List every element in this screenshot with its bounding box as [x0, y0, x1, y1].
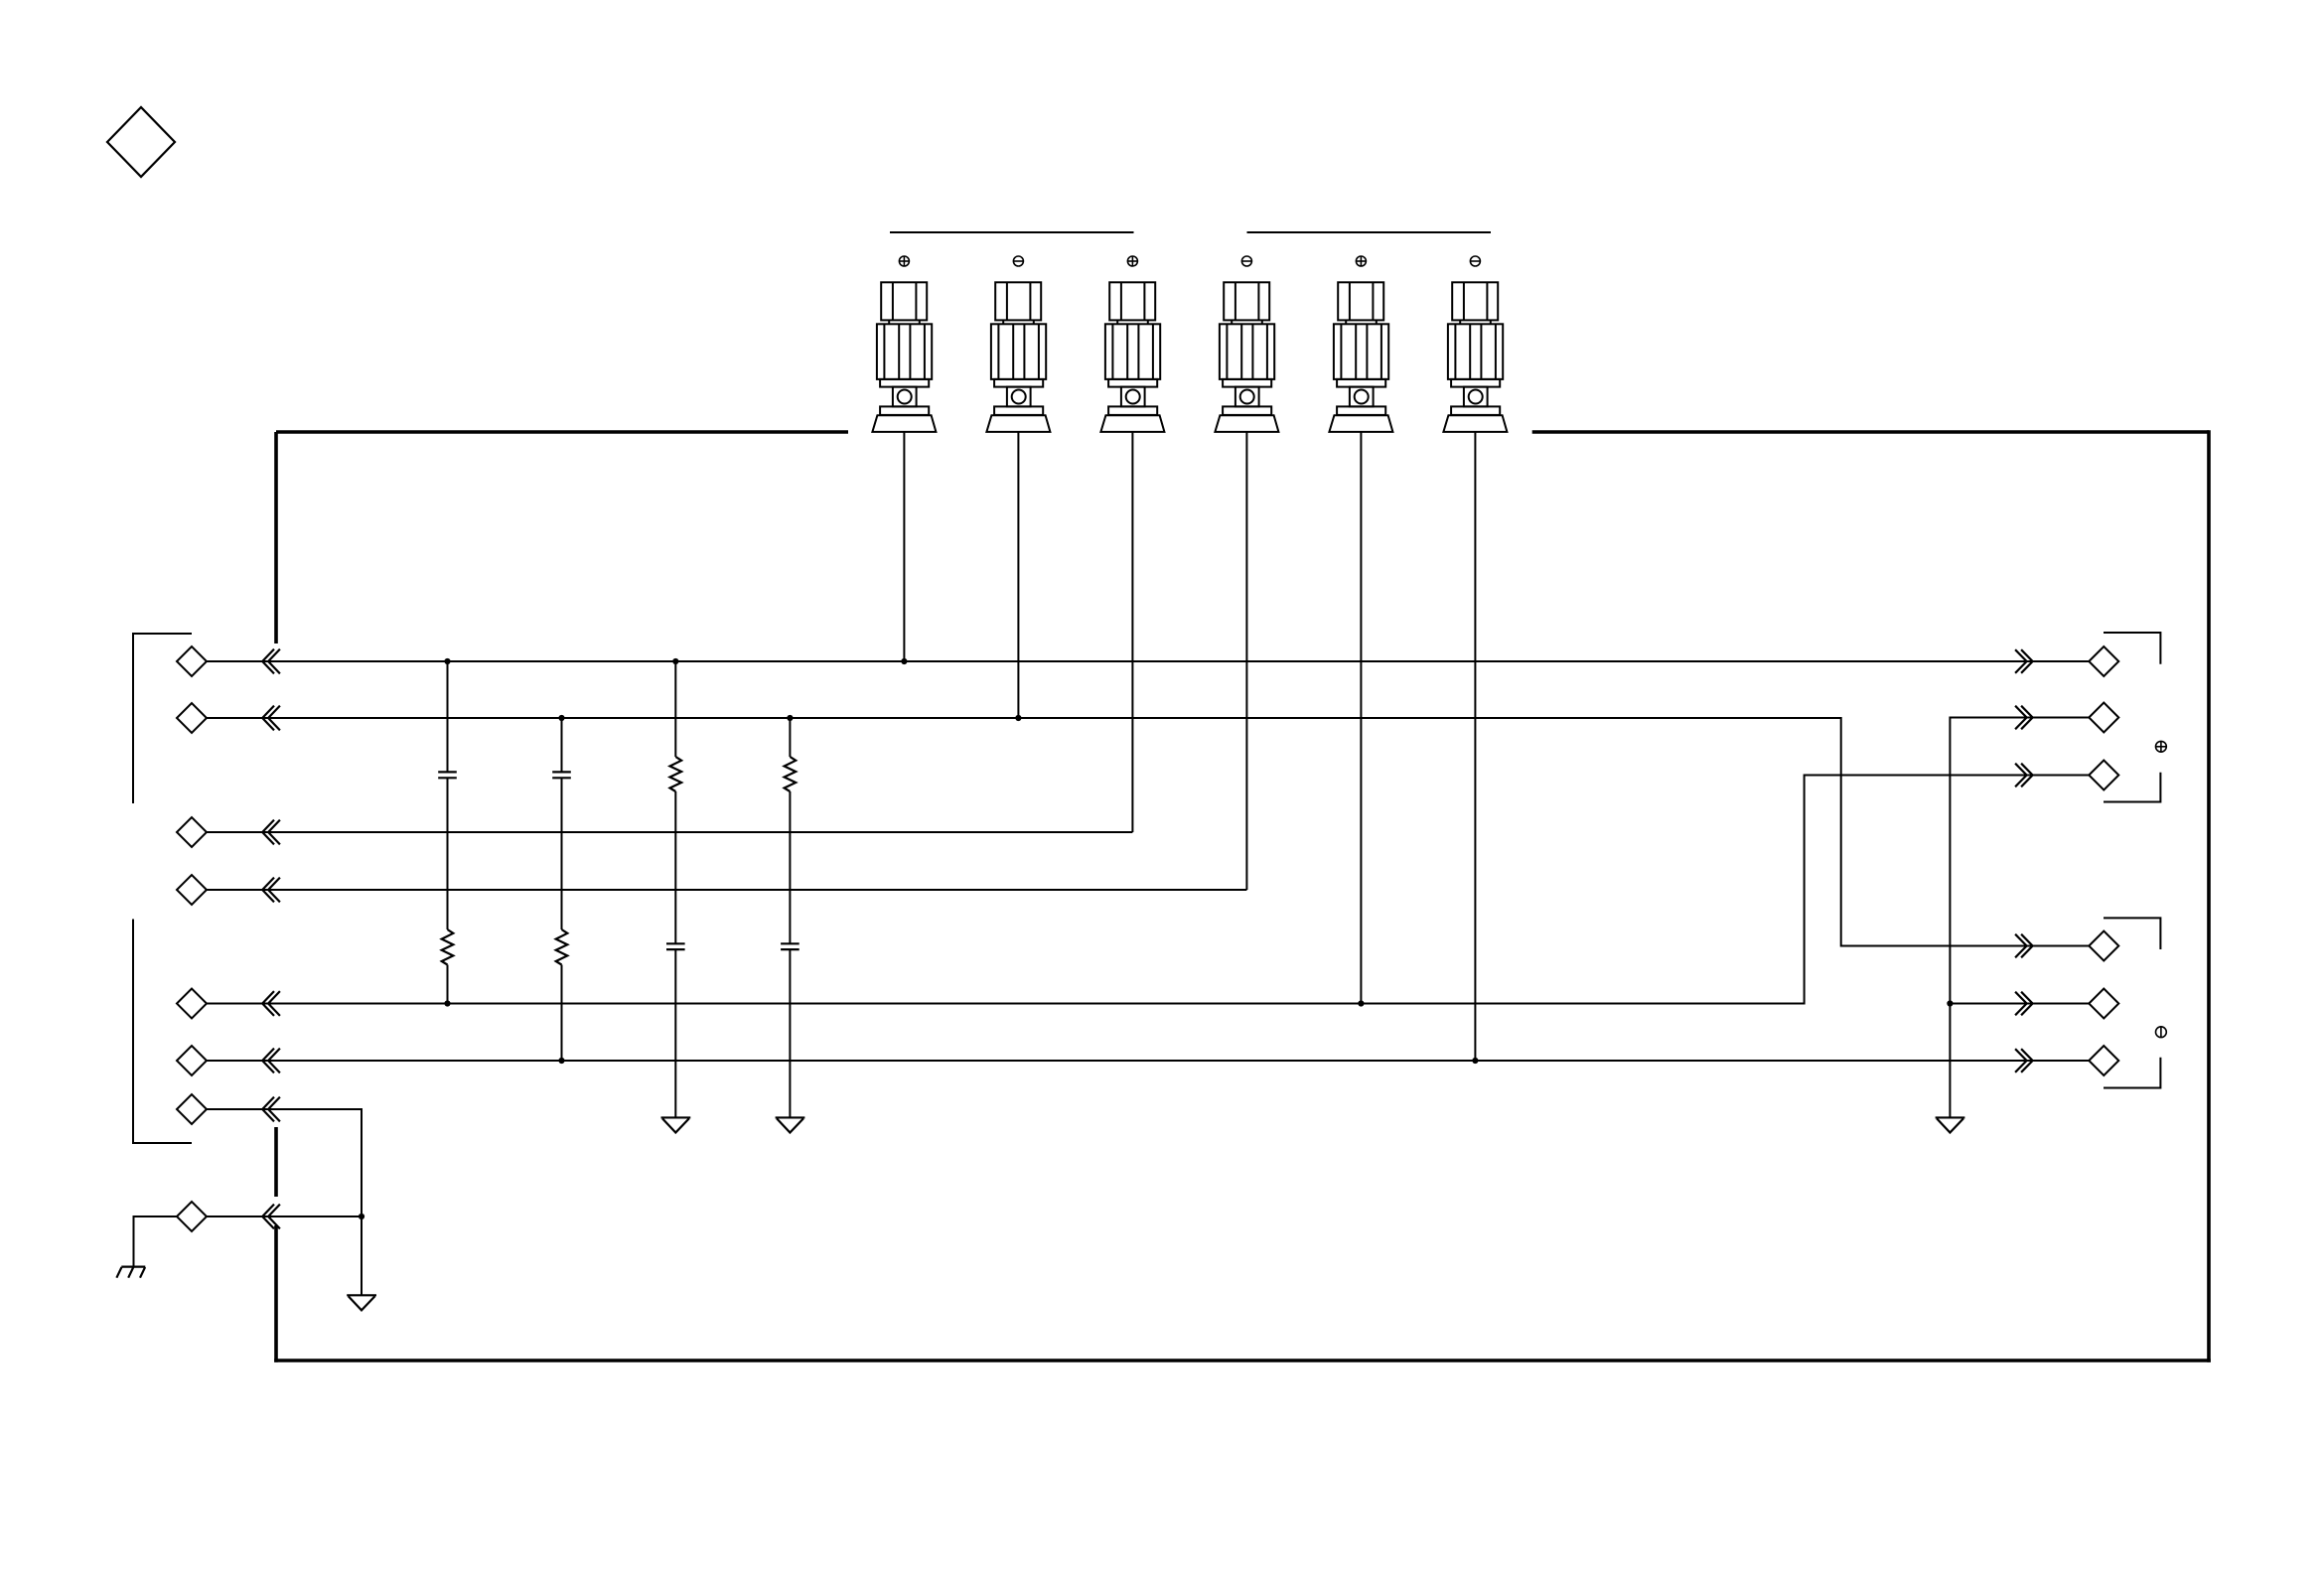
junction	[901, 658, 907, 664]
junction	[558, 1058, 564, 1064]
boundary chevron B6	[2015, 1049, 2027, 1072]
right pin B2 diamond	[2089, 703, 2118, 733]
left connector bracket (lower)	[133, 920, 192, 1144]
wire from terminal T4	[1245, 432, 1247, 890]
polarity mark + (right upper)	[2156, 741, 2167, 752]
right pin B1 diamond	[2089, 646, 2118, 676]
wire row 4 (A4 to T4)	[207, 889, 1246, 891]
wire row 6 (A6 to B6)	[207, 1060, 2089, 1062]
binding post terminal T5	[1329, 256, 1392, 432]
left pin A4 diamond	[177, 875, 207, 905]
wire row 3 (A3 to T3)	[207, 831, 1132, 833]
boundary chevron A5	[262, 991, 274, 1016]
boundary chevron B3	[2015, 764, 2027, 787]
ground (C4)	[776, 1116, 805, 1118]
chassis ground	[116, 1267, 145, 1278]
binding post terminal T3	[1100, 256, 1164, 432]
wire row 7 (A7 to ground)	[207, 1109, 362, 1295]
amplifier enclosure bottom border	[274, 1358, 2211, 1362]
capacitor C2	[561, 718, 563, 772]
ground (C3)	[661, 1116, 691, 1118]
boundary chevron B1	[2015, 649, 2027, 673]
amplifier enclosure left border	[274, 432, 278, 1362]
boundary chevron A4	[262, 878, 274, 903]
speaker group A line	[890, 231, 1134, 233]
left connector bracket (upper)	[133, 634, 192, 803]
ground (signal, row7/8)	[347, 1294, 376, 1296]
speaker group B line	[1247, 231, 1492, 233]
resistor R3	[674, 661, 676, 757]
boundary chevron A3	[262, 820, 274, 845]
boundary chevron A6	[262, 1049, 274, 1073]
binding post terminal T2	[986, 256, 1050, 432]
binding post terminal T4	[1215, 256, 1278, 432]
right pin B4 diamond	[2089, 931, 2118, 961]
junction	[444, 658, 450, 664]
junction	[558, 715, 564, 721]
left pin A6 diamond	[177, 1046, 207, 1075]
wire row 8 right (A8 to ground node)	[207, 1215, 362, 1217]
left pin A3 diamond	[177, 817, 207, 847]
wire row 5 (A5 to B3)	[207, 776, 2089, 1004]
capacitor C1	[447, 661, 449, 772]
boundary chevron A1	[262, 649, 274, 674]
junction	[444, 1000, 450, 1006]
boundary chevron B4	[2015, 934, 2027, 958]
left pin A1 diamond	[177, 646, 207, 676]
capacitor C4	[781, 942, 799, 944]
right bracket upper group	[2104, 633, 2160, 802]
resistor R4	[789, 718, 791, 757]
binding post terminal T1	[872, 256, 936, 432]
resistor R2	[556, 929, 568, 965]
junction	[1015, 715, 1021, 721]
junction	[787, 715, 793, 721]
junction	[359, 1214, 364, 1219]
boundary chevron B5	[2015, 992, 2027, 1016]
junction	[1358, 1000, 1364, 1006]
right pin B3 diamond	[2089, 761, 2118, 790]
wire row 8 left (A8 to chassis ground)	[134, 1216, 178, 1267]
left pin A5 diamond	[177, 989, 207, 1019]
junction	[1472, 1058, 1478, 1064]
boundary chevron A2	[262, 706, 274, 731]
wire B5 stub	[1950, 1003, 2089, 1005]
wire from terminal T1	[903, 432, 905, 661]
boundary chevron B2	[2015, 706, 2027, 730]
polarity mark - (right lower)	[2156, 1027, 2167, 1038]
capacitor C3	[666, 942, 685, 944]
right bracket lower group	[2104, 918, 2160, 1087]
junction	[1947, 1000, 1953, 1006]
boundary chevron A7	[262, 1097, 274, 1122]
amplifier enclosure right border	[2207, 430, 2211, 1362]
amplifier enclosure top border	[276, 430, 2209, 434]
wire B2 to ground	[1950, 718, 2089, 1118]
binding post terminal T6	[1443, 256, 1507, 432]
boundary chevron A8	[262, 1205, 274, 1229]
off-page reference diamond	[107, 107, 175, 177]
wire from terminal T6	[1474, 432, 1476, 1061]
right pin B5 diamond	[2089, 989, 2118, 1019]
wire from terminal T3	[1131, 432, 1133, 832]
right pin B6 diamond	[2089, 1046, 2118, 1075]
resistor R1	[442, 929, 454, 965]
left pin A2 diamond	[177, 703, 207, 733]
junction	[672, 658, 678, 664]
ground (right, B2 net)	[1936, 1116, 1965, 1118]
wire from terminal T2	[1017, 432, 1019, 718]
wire from terminal T5	[1360, 432, 1362, 1004]
wire row 2 (A2 to B4)	[207, 718, 2089, 946]
left pin A7 diamond	[177, 1094, 207, 1124]
left pin A8 diamond	[177, 1202, 207, 1231]
wire row 1 (A1 to B1)	[207, 660, 2089, 662]
